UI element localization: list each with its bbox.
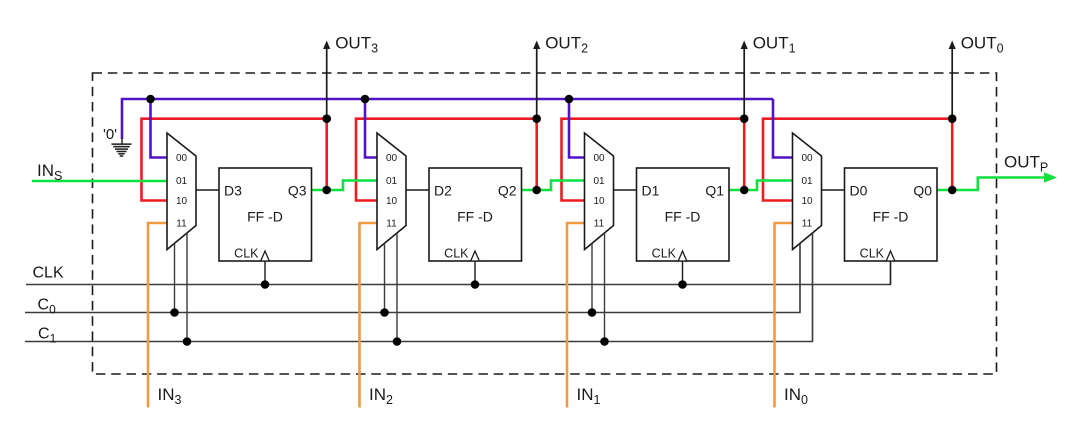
svg-text:10: 10 [593, 196, 605, 207]
mux M3 [585, 133, 614, 250]
svg-text:FF -D: FF -D [457, 209, 493, 225]
wire mux M4 output to D0 [822, 189, 845, 191]
wire OUT2 vertical with arrow [536, 48, 538, 119]
wire OUT1 vertical with arrow [743, 48, 745, 119]
wire Q0 feedback (red) to mux 4 input 10 [763, 119, 952, 201]
wire parallel input IN3 (orange) [148, 223, 167, 408]
flip-flop FF1 (FF-D) [219, 168, 312, 261]
svg-text:00: 00 [176, 153, 188, 164]
wire mux M2 select S0 to C0 [384, 243, 386, 312]
wire mux M4 select S1 to C1 [812, 233, 814, 342]
mux M3 input labels [593, 153, 605, 230]
wire mux M1 output to D3 [196, 189, 219, 191]
arrowhead OUT_P [1044, 172, 1057, 182]
svg-text:01: 01 [176, 176, 188, 187]
clock edge triangle FF3 [678, 251, 687, 261]
clock edge triangle FF4 [886, 251, 895, 261]
constant '0' net wire (purple horizontal) [122, 99, 773, 139]
svg-text:FF -D: FF -D [665, 209, 701, 225]
wire parallel input IN1 (orange) [567, 223, 585, 408]
mux M1 [167, 133, 196, 250]
wire FF1 clock stub [264, 261, 266, 285]
svg-text:FF -D: FF -D [247, 209, 283, 225]
wire '0' tap to mux 2 input 00 (purple) [365, 99, 377, 158]
wire mux M1 select S0 to C0 [174, 243, 176, 312]
svg-text:'0': '0' [103, 126, 117, 143]
wire mux M4 select S0 to C0 [799, 243, 801, 312]
mux M2 input labels [386, 153, 398, 230]
svg-text:CLK: CLK [652, 247, 677, 261]
svg-text:D0: D0 [850, 183, 868, 199]
wire FF2 clock stub [474, 261, 476, 285]
labels FF1 [224, 183, 307, 261]
wire Q2 to mux 3 input 01 (green) [522, 181, 585, 191]
wire mux M2 output to D2 [406, 189, 429, 191]
wire '0' tap to mux 1 input 00 (purple) [151, 99, 168, 158]
clock edge triangle FF2 [471, 251, 480, 261]
wire Q2 feedback (red) to mux 2 input 10 [356, 119, 537, 201]
wire Q3 feedback (red) to mux 1 input 10 [142, 119, 327, 201]
svg-text:D3: D3 [224, 183, 242, 199]
wire mux M3 output to D1 [614, 189, 637, 191]
wire OUT3 vertical with arrow [326, 48, 328, 119]
svg-text:FF -D: FF -D [873, 209, 909, 225]
wire C1 bus [25, 233, 813, 342]
wire OUT0 vertical with arrow [951, 48, 953, 119]
svg-text:D2: D2 [434, 183, 452, 199]
flip-flop FF3 (FF-D) [637, 168, 730, 261]
svg-text:00: 00 [593, 153, 605, 164]
svg-text:CLK: CLK [860, 247, 885, 261]
svg-text:11: 11 [176, 219, 187, 230]
svg-text:11: 11 [386, 219, 397, 230]
wire Q0 to OUT_P (green) [937, 178, 1045, 191]
mux M4 input labels [801, 153, 813, 230]
mux M4 [793, 133, 822, 250]
wire FF4 clock stub [890, 261, 892, 285]
svg-text:CLK: CLK [234, 247, 259, 261]
svg-text:01: 01 [801, 176, 813, 187]
mux M1 input labels [176, 153, 188, 230]
wire mux M2 select S1 to C1 [396, 233, 398, 342]
wire parallel input IN0 (orange) [775, 223, 793, 408]
svg-text:00: 00 [801, 153, 813, 164]
flip-flop FF4 (FF-D) [845, 168, 938, 261]
svg-text:01: 01 [386, 176, 398, 187]
wire mux M3 select S0 to C0 [591, 243, 593, 312]
clock edge triangle FF1 [261, 251, 270, 261]
wire FF3 clock stub [682, 261, 684, 285]
svg-text:Q0: Q0 [913, 183, 932, 199]
wire parallel input IN2 (orange) [360, 223, 378, 408]
labels FF3 [642, 183, 725, 261]
wire '0' tap to mux 3 input 00 (purple) [569, 99, 585, 158]
svg-text:11: 11 [594, 219, 605, 230]
svg-text:Q3: Q3 [288, 183, 307, 199]
wire CLK bus [26, 261, 891, 285]
wire C0 bus [25, 243, 800, 312]
labels FF4 [850, 183, 933, 261]
wire '0' tap to mux 4 input 00 (purple) [773, 99, 793, 158]
svg-text:Q2: Q2 [498, 183, 517, 199]
svg-text:10: 10 [386, 196, 398, 207]
wire Q3 to mux 2 input 01 (green) [312, 181, 378, 191]
ground symbol [112, 138, 132, 156]
wire mux M1 select S1 to C1 [186, 233, 188, 342]
svg-text:11: 11 [802, 219, 813, 230]
wire serial input IN_S (green) [32, 180, 167, 183]
svg-text:Q1: Q1 [705, 183, 724, 199]
svg-text:CLK: CLK [33, 265, 64, 282]
flip-flop FF2 (FF-D) [429, 168, 522, 261]
svg-text:10: 10 [801, 196, 813, 207]
svg-text:01: 01 [593, 176, 605, 187]
labels FF2 [434, 183, 517, 261]
wire mux M3 select S1 to C1 [604, 233, 606, 342]
wire Q1 feedback (red) to mux 3 input 10 [562, 119, 745, 201]
svg-text:00: 00 [386, 153, 398, 164]
svg-text:D1: D1 [642, 183, 660, 199]
mux M2 [377, 133, 406, 250]
wire Q1 to mux 4 input 01 (green) [729, 181, 793, 191]
dashed module boundary [93, 73, 997, 374]
svg-text:10: 10 [176, 196, 188, 207]
svg-text:CLK: CLK [444, 247, 469, 261]
